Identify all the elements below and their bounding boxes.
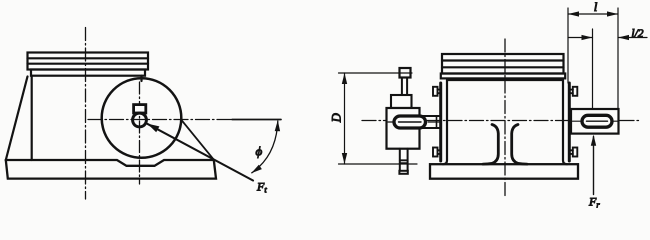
arrow l/2 left <box>618 35 629 40</box>
angle reference line <box>232 119 281 121</box>
body left wall <box>443 80 447 164</box>
centerline vertical <box>504 39 506 196</box>
shaft stub to pulley <box>420 115 442 117</box>
svg-text:D: D <box>330 113 344 123</box>
pulley bottom stem <box>399 149 401 171</box>
web rib right <box>512 125 527 165</box>
l/2 right segment <box>618 37 647 39</box>
pulley bottom cap <box>399 171 407 174</box>
pulley top stem <box>401 78 403 96</box>
arrow l/2 mid <box>582 35 593 40</box>
output slot <box>582 115 612 127</box>
bolt left bottom <box>433 148 440 157</box>
bolt right bottom <box>571 148 578 157</box>
body left edge <box>31 76 33 160</box>
hub keyway slot <box>394 116 426 128</box>
dimension D line <box>344 73 346 164</box>
base plate right view <box>430 164 578 179</box>
arrow arc top <box>275 120 280 131</box>
body right wall <box>563 80 567 164</box>
svg-text:ϕ: ϕ <box>256 144 263 159</box>
arrow D top <box>342 73 347 84</box>
pulley circle <box>102 78 182 158</box>
force line Ft <box>147 124 253 181</box>
web rib left <box>483 125 498 165</box>
dimension D extension bottom <box>339 163 418 165</box>
arrow arc bottom <box>251 165 262 174</box>
force Fr line <box>593 137 595 195</box>
base plate <box>6 160 216 179</box>
arrow D bottom <box>342 153 347 164</box>
pulley top cap <box>400 68 411 78</box>
bracket slant left <box>6 77 28 161</box>
cap ribs right view <box>441 54 565 78</box>
output shaft <box>571 109 619 134</box>
shaft small circle <box>133 113 147 127</box>
output slot inner line <box>587 120 608 122</box>
extension line l left <box>567 8 569 83</box>
arrow l right <box>607 11 618 16</box>
keyway on shaft <box>134 105 146 113</box>
body outline <box>447 79 563 81</box>
arrow l left <box>568 11 579 16</box>
dimension l line <box>568 13 618 15</box>
arrowhead Ft <box>147 124 159 133</box>
centerline vertical pulley <box>139 82 141 184</box>
svg-text:l: l <box>594 0 598 14</box>
centerline segment in hub <box>388 121 393 123</box>
bracket slant right <box>181 120 214 160</box>
centerline horizontal <box>88 119 232 121</box>
pulley top rim <box>391 95 412 108</box>
flange plate left <box>439 83 442 161</box>
bolt left top <box>433 87 440 96</box>
flange plate right <box>568 83 571 161</box>
bolt right top <box>571 87 578 96</box>
pulley hub <box>387 108 420 149</box>
extension line l right <box>617 8 619 109</box>
centerline horizontal shaft <box>362 120 640 122</box>
motor cap ribs <box>28 53 149 76</box>
angle arc phi <box>252 121 278 173</box>
l/2 left segment <box>568 37 593 39</box>
arrow Fr <box>591 135 596 146</box>
hub slot inner line <box>399 121 422 123</box>
centerline vertical body <box>85 28 87 200</box>
l/2 tick extension <box>592 29 594 109</box>
bearing inner edge <box>436 116 438 128</box>
body right short edge <box>140 76 142 81</box>
dimension D extension top <box>339 72 413 74</box>
centerline segment in output shaft <box>573 120 581 122</box>
svg-text:l/2: l/2 <box>631 28 643 40</box>
pulley bottom collar <box>400 159 408 161</box>
